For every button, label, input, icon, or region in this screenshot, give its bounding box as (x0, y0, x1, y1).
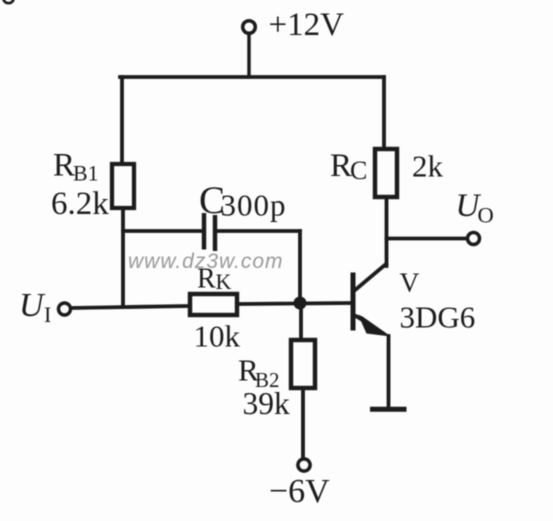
svg-text:300p: 300p (221, 188, 287, 223)
svg-text:39k: 39k (243, 386, 291, 421)
svg-text:−6V: −6V (269, 473, 330, 510)
svg-text:+12V: +12V (269, 7, 345, 43)
svg-text:6.2k: 6.2k (51, 186, 109, 222)
svg-text:U: U (19, 287, 46, 324)
svg-text:K: K (216, 269, 232, 294)
svg-text:O: O (478, 203, 494, 228)
svg-text:R: R (197, 264, 216, 295)
svg-text:10k: 10k (194, 319, 241, 354)
svg-text:2k: 2k (412, 149, 444, 184)
svg-text:R: R (330, 148, 352, 184)
svg-text:3DG6: 3DG6 (400, 300, 476, 335)
svg-text:C: C (350, 156, 367, 185)
svg-text:R: R (53, 148, 75, 184)
svg-text:I: I (44, 302, 51, 327)
svg-text:B1: B1 (73, 161, 99, 186)
svg-text:V: V (400, 267, 420, 298)
